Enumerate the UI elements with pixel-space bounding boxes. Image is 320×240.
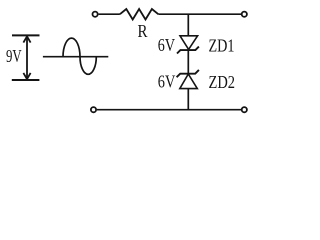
svg-text:6V: 6V xyxy=(158,35,175,55)
zener diode ZD2 xyxy=(177,70,199,89)
resistor R xyxy=(120,9,158,20)
svg-text:ZD2: ZD2 xyxy=(209,72,236,92)
svg-text:6V: 6V xyxy=(158,72,176,92)
zener diode ZD1 xyxy=(177,36,199,54)
bottom wire xyxy=(97,109,241,111)
wire junction down to ZD1 xyxy=(187,14,189,36)
terminal top-right xyxy=(242,12,247,17)
AC source sine waveform baseline xyxy=(43,56,108,58)
terminal bottom-right xyxy=(242,107,247,112)
wire resistor to top-right terminal xyxy=(158,13,241,15)
wire between ZD1 and ZD2 xyxy=(187,49,189,73)
svg-text:R: R xyxy=(138,21,148,41)
svg-text:ZD1: ZD1 xyxy=(209,35,235,55)
amplitude double-headed arrow xyxy=(23,36,30,79)
wire top-left to resistor xyxy=(99,13,120,15)
svg-text:9V: 9V xyxy=(6,46,22,66)
wire ZD2 to bottom wire xyxy=(187,89,189,110)
terminal bottom-left xyxy=(91,107,96,112)
terminal top-left xyxy=(93,12,98,17)
AC source sine wave xyxy=(63,38,96,74)
amplitude top bar xyxy=(12,34,40,36)
amplitude bottom bar xyxy=(12,79,40,81)
